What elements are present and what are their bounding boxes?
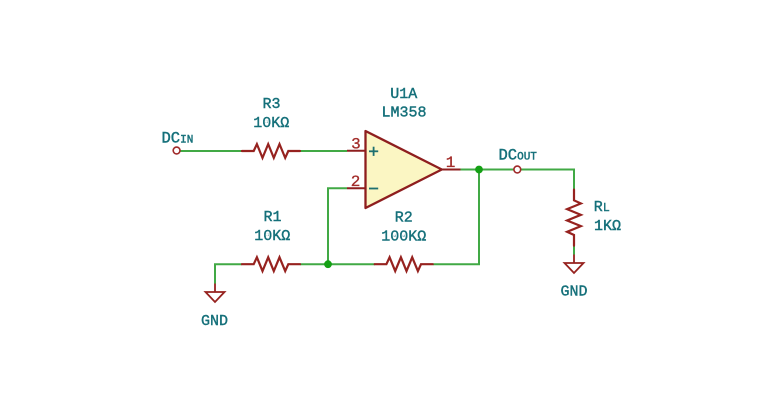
svg-text:RL: RL xyxy=(594,199,610,216)
zero counter cleanups (cover Liberation Mono dotted-zero) xyxy=(265,121,404,236)
wire DC_IN to R3 xyxy=(181,150,243,152)
svg-text:R3: R3 xyxy=(262,96,280,113)
op-amp U1A xyxy=(347,131,461,208)
svg-text:R2: R2 xyxy=(395,210,413,227)
svg-text:R1: R1 xyxy=(263,209,281,226)
wire GND1 to R1 xyxy=(215,264,242,283)
resistor RL xyxy=(567,190,581,246)
junction feedback node xyxy=(324,260,332,268)
svg-text:1KΩ: 1KΩ xyxy=(594,218,621,235)
wire pin 2 to feedback node xyxy=(328,188,347,264)
ground GND1 xyxy=(206,284,225,303)
junction output node xyxy=(475,166,483,174)
resistor R2 xyxy=(375,257,433,271)
wire R3 to pin 3 xyxy=(300,150,347,152)
wire R2 to output node xyxy=(433,170,479,265)
svg-text:1: 1 xyxy=(446,154,456,172)
svg-text:LM358: LM358 xyxy=(381,105,426,122)
svg-text:U1A: U1A xyxy=(390,86,417,103)
svg-text:3: 3 xyxy=(351,135,361,153)
svg-text:100KΩ: 100KΩ xyxy=(381,228,426,245)
node DC_IN circle xyxy=(173,147,180,154)
svg-text:10KΩ: 10KΩ xyxy=(254,228,290,245)
wire RL to GND2 xyxy=(573,245,575,254)
svg-text:10KΩ: 10KΩ xyxy=(253,115,289,132)
wire output to DC_OUT and RL xyxy=(461,170,575,191)
wire R1 to junction xyxy=(300,263,328,265)
ground GND2 xyxy=(565,255,584,274)
node DC_OUT circle xyxy=(514,166,521,173)
svg-text:2: 2 xyxy=(351,173,361,191)
resistor R3 xyxy=(242,144,300,158)
svg-text:GND: GND xyxy=(560,283,587,300)
resistor R1 xyxy=(242,257,300,271)
svg-text:GND: GND xyxy=(201,313,228,330)
wire junction to R2 xyxy=(328,263,375,265)
